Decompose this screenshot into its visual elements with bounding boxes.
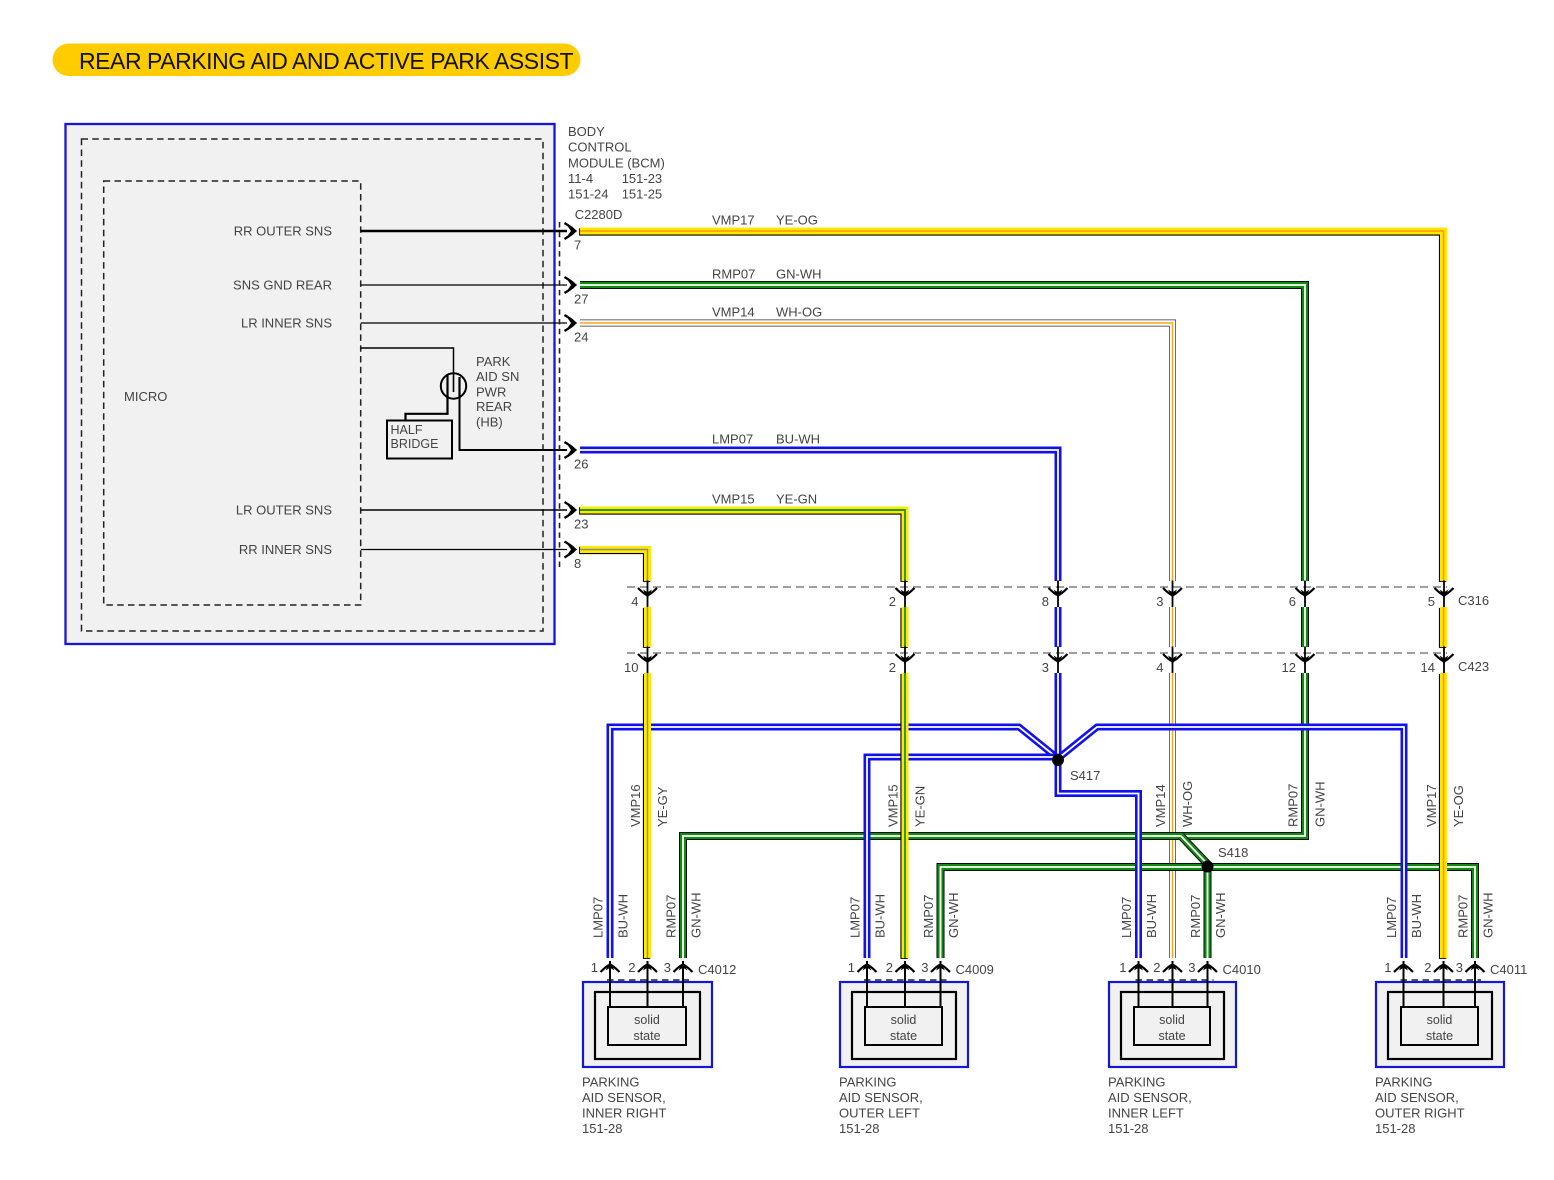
svg-text:151-23: 151-23 (622, 171, 662, 186)
svg-text:C4009: C4009 (956, 962, 994, 977)
svg-text:151-28: 151-28 (839, 1121, 879, 1136)
connector C316 pin 6 (1296, 581, 1315, 608)
svg-text:C4010: C4010 (1223, 962, 1261, 977)
parking aid sensor C4011 outer box (1376, 982, 1504, 1067)
splice S418 (1202, 861, 1214, 873)
svg-text:2: 2 (889, 594, 896, 609)
rotated wire label LMP07 BU-WH at C4012 (591, 894, 631, 938)
svg-text:SNS GND REAR: SNS GND REAR (233, 278, 332, 293)
connector C4011 dashed line (1401, 979, 1482, 981)
svg-text:MICRO: MICRO (124, 389, 167, 404)
svg-text:11-4: 11-4 (568, 171, 593, 186)
svg-text:7: 7 (574, 238, 581, 253)
svg-text:1: 1 (1384, 960, 1391, 975)
svg-text:LMP07: LMP07 (591, 897, 606, 938)
svg-text:AID SENSOR,: AID SENSOR, (582, 1090, 666, 1105)
wire lead RR INNER SNS (361, 549, 567, 551)
svg-text:12: 12 (1282, 660, 1296, 675)
connector C423 pin 12 (1296, 647, 1315, 674)
svg-text:AID SENSOR,: AID SENSOR, (839, 1090, 923, 1105)
svg-text:GN-WH: GN-WH (1481, 893, 1496, 939)
rotated wire label LMP07 BU-WH at C4011 (1384, 894, 1424, 938)
connector C4009 dashed line (864, 979, 947, 981)
svg-text:1: 1 (1119, 960, 1126, 975)
svg-text:state: state (1158, 1029, 1185, 1043)
connector C4011 pin 2 (1434, 961, 1453, 1008)
connector C423 dashed line (627, 652, 1447, 654)
svg-text:AID SENSOR,: AID SENSOR, (1108, 1090, 1192, 1105)
svg-text:solid: solid (634, 1013, 660, 1027)
svg-text:BU-WH: BU-WH (1409, 894, 1424, 938)
svg-text:RMP07: RMP07 (1286, 784, 1301, 827)
svg-text:151-28: 151-28 (1108, 1121, 1148, 1136)
svg-text:state: state (633, 1029, 660, 1043)
svg-text:AID SENSOR,: AID SENSOR, (1375, 1090, 1459, 1105)
svg-text:C4011: C4011 (1490, 962, 1527, 977)
svg-text:MODULE (BCM): MODULE (BCM) (568, 155, 665, 170)
wire RMP07 GN-WH between C316 and C423 (1301, 607, 1309, 647)
svg-text:OUTER LEFT: OUTER LEFT (839, 1106, 920, 1121)
wire VMP16 YE-GY between C316 and C423 (643, 607, 651, 648)
connector C316 pin 5 (1435, 581, 1454, 608)
svg-text:PARKING: PARKING (1375, 1075, 1433, 1090)
sensor C4011 caption (1375, 1075, 1465, 1137)
BCM connector pin 24 arrow (565, 315, 578, 331)
svg-text:151-24: 151-24 (568, 187, 608, 202)
svg-text:23: 23 (574, 517, 588, 532)
connector C4012 pin 1 (601, 961, 620, 1008)
svg-text:2: 2 (1424, 960, 1431, 975)
svg-text:151-28: 151-28 (582, 1121, 622, 1136)
splice S417 (1052, 754, 1064, 766)
wire LMP07 BU-WH between C316 and C423 (1055, 607, 1062, 647)
rotated wire label LMP07 BU-WH at C4009 (848, 894, 888, 938)
connector C4010 dashed line (1136, 979, 1214, 981)
wire LMP07 BU-WH C423 to splice S417 (1055, 673, 1062, 757)
svg-text:state: state (1426, 1029, 1453, 1043)
rotated wire label RMP07 GN-WH at C4012 (664, 893, 704, 939)
rotated wire label VMP17 YE-OG (1424, 784, 1466, 827)
svg-text:BU-WH: BU-WH (616, 894, 631, 938)
PARK AID SN PWR REAR (HB) driver symbol (circle) (441, 373, 466, 398)
svg-text:2: 2 (628, 960, 635, 975)
svg-text:CONTROL: CONTROL (568, 140, 632, 155)
wire lead to PARK AID SN PWR symbol (361, 348, 454, 374)
svg-text:YE-OG: YE-OG (1451, 785, 1466, 827)
BCM connector pin 7 arrow (565, 223, 578, 239)
parking aid sensor C4009 outer box (840, 982, 968, 1067)
wire label LMP07 BU-WH (712, 432, 820, 447)
rotated wire label RMP07 GN-WH at C4010 (1188, 893, 1228, 939)
svg-text:4: 4 (631, 594, 638, 609)
MICRO dashed box (104, 181, 361, 605)
sensor C4010 inner box (1121, 992, 1224, 1059)
wire RMP07 GN-WH to sensor C4012 pin 3 (683, 673, 1305, 958)
svg-text:VMP16: VMP16 (628, 784, 643, 827)
connector C423 pin 2 (896, 647, 915, 674)
connector C316 pin 3 (1163, 581, 1182, 608)
svg-text:VMP15: VMP15 (712, 492, 755, 507)
wire VMP15 YE-GN to sensor C4009 pin 2 (900, 673, 908, 959)
wire VMP16 YE-GY to sensor C4012 pin 2 (643, 673, 651, 959)
connector C423 pin 10 (638, 647, 657, 674)
svg-text:VMP14: VMP14 (712, 305, 755, 320)
rotated wire label RMP07 GN-WH at C4009 (921, 893, 961, 939)
wire lead RR OUTER SNS (361, 230, 567, 232)
svg-text:2: 2 (886, 960, 893, 975)
svg-text:state: state (890, 1029, 917, 1043)
svg-text:GN-WH: GN-WH (1313, 782, 1328, 828)
svg-text:INNER RIGHT: INNER RIGHT (582, 1106, 667, 1121)
wire RMP07 GN-WH sensor C4009 pin 3 to sensor C4011 pin 3 (941, 867, 1476, 958)
wire label VMP15 YE-GN (712, 492, 817, 507)
svg-text:RMP07: RMP07 (921, 895, 936, 938)
svg-text:HALF: HALF (391, 423, 423, 437)
wire lead LR OUTER SNS (361, 509, 567, 511)
BCM connector pin 27 arrow (565, 277, 578, 293)
svg-text:LR OUTER SNS: LR OUTER SNS (236, 503, 332, 518)
svg-text:YE-OG: YE-OG (776, 213, 818, 228)
sensor C4010 solid state block (1134, 1007, 1210, 1045)
connector C423 pin 3 (1049, 647, 1068, 674)
sensor C4012 caption (582, 1075, 667, 1137)
BCM outer dashed boundary (82, 139, 544, 631)
svg-text:PWR: PWR (476, 384, 506, 399)
sensor C4009 inner box (852, 992, 956, 1059)
sensor C4009 solid state block (865, 1007, 942, 1045)
rotated wire label VMP15 YE-GN (886, 784, 928, 827)
sensor C4009 caption (839, 1075, 923, 1137)
svg-text:RR INNER SNS: RR INNER SNS (239, 542, 333, 557)
svg-text:C316: C316 (1458, 593, 1489, 608)
rotated wire label RMP07 GN-WH (1286, 782, 1328, 828)
connector C4010 pin 1 (1129, 961, 1148, 1008)
svg-text:RMP07: RMP07 (712, 267, 755, 282)
svg-text:VMP17: VMP17 (1424, 784, 1439, 827)
svg-text:3: 3 (1188, 960, 1195, 975)
title banner REAR PARKING AID AND ACTIVE PARK ASSIST (53, 44, 581, 77)
BCM title text block (568, 124, 665, 202)
svg-text:1: 1 (591, 960, 598, 975)
BCM connector pin 23 arrow (565, 502, 578, 518)
svg-text:PARKING: PARKING (1108, 1075, 1166, 1090)
svg-text:3: 3 (1156, 594, 1163, 609)
svg-text:151-25: 151-25 (622, 187, 662, 202)
svg-text:solid: solid (891, 1013, 917, 1027)
wire lead SNS GND REAR (361, 284, 567, 286)
connector C316 pin 8 (1049, 581, 1068, 608)
svg-text:2: 2 (1153, 960, 1160, 975)
svg-text:AID SN: AID SN (476, 369, 519, 384)
wire VMP16 YE-GY from BCM pin 8 (579, 550, 647, 582)
wire VMP17 YE-OG between C316 and C423 (1439, 607, 1447, 648)
wire VMP17 YE-OG to sensor C4011 pin 2 (1439, 673, 1447, 959)
svg-text:YE-GN: YE-GN (913, 786, 928, 827)
svg-text:GN-WH: GN-WH (946, 893, 961, 939)
svg-text:YE-GY: YE-GY (655, 786, 670, 827)
sensor C4010 caption (1108, 1075, 1192, 1137)
svg-text:GN-WH: GN-WH (1213, 893, 1228, 939)
sensor C4012 solid state block (608, 1007, 686, 1045)
svg-text:C2280D: C2280D (575, 207, 623, 222)
wire RMP07 GN-WH splice S418 to sensor C4010 pin 3 (1204, 867, 1212, 959)
svg-text:LMP07: LMP07 (712, 432, 753, 447)
svg-text:3: 3 (1456, 960, 1463, 975)
sensor C4012 inner box (595, 992, 700, 1059)
wire circle to HALF BRIDGE (406, 396, 448, 420)
svg-text:2: 2 (889, 660, 896, 675)
wire label RMP07 GN-WH (712, 267, 822, 282)
wire lead LR INNER SNS (361, 322, 567, 324)
svg-text:8: 8 (574, 556, 581, 571)
svg-text:C423: C423 (1458, 659, 1489, 674)
svg-text:3: 3 (921, 960, 928, 975)
connector C2280D dashed line (559, 222, 561, 570)
rotated wire label RMP07 GN-WH at C4011 (1456, 893, 1496, 939)
svg-text:RMP07: RMP07 (1188, 895, 1203, 938)
svg-text:WH-OG: WH-OG (776, 305, 822, 320)
svg-text:RMP07: RMP07 (1456, 895, 1471, 938)
svg-text:INNER LEFT: INNER LEFT (1108, 1106, 1184, 1121)
svg-text:8: 8 (1042, 594, 1049, 609)
wire RMP07 branch to splice S418 (1181, 836, 1208, 864)
svg-text:YE-GN: YE-GN (776, 492, 817, 507)
svg-text:10: 10 (624, 660, 638, 675)
svg-text:VMP17: VMP17 (712, 213, 755, 228)
svg-text:27: 27 (574, 292, 588, 307)
connector C4010 pin 2 (1163, 961, 1182, 1008)
svg-text:1: 1 (848, 960, 855, 975)
svg-text:LMP07: LMP07 (1384, 897, 1399, 938)
connector C4011 pin 3 (1466, 961, 1485, 1008)
wire VMP15 YE-GN from BCM pin 23 (579, 510, 905, 582)
HALF BRIDGE block (387, 421, 452, 459)
svg-text:solid: solid (1427, 1013, 1453, 1027)
svg-text:(HB): (HB) (476, 414, 503, 429)
wire VMP14 WH-OG to sensor C4010 pin 2 (1169, 673, 1176, 958)
connector C4011 pin 1 (1394, 961, 1413, 1008)
connector C4012 pin 3 (674, 961, 693, 1008)
svg-text:14: 14 (1421, 660, 1435, 675)
connector C4010 pin 3 (1198, 961, 1217, 1008)
connector C316 pin 4 (638, 581, 657, 608)
svg-text:GN-WH: GN-WH (776, 267, 822, 282)
BCM connector pin 26 arrow (565, 442, 578, 458)
PARK AID SN PWR REAR (HB) label (476, 354, 519, 429)
svg-text:BRIDGE: BRIDGE (391, 437, 439, 451)
parking aid sensor C4010 outer box (1109, 982, 1236, 1067)
rotated wire label VMP14 WH-OG (1153, 781, 1195, 827)
svg-text:BU-WH: BU-WH (1144, 894, 1159, 938)
BCM module box (66, 124, 555, 644)
wire VMP14 WH-OG from BCM pin 24 (580, 323, 1173, 581)
svg-text:BODY: BODY (568, 124, 605, 139)
svg-text:REAR: REAR (476, 399, 512, 414)
svg-text:REAR PARKING AID AND ACTIVE PA: REAR PARKING AID AND ACTIVE PARK ASSIST (79, 48, 574, 74)
svg-text:OUTER RIGHT: OUTER RIGHT (1375, 1106, 1465, 1121)
wire label VMP14 WH-OG (712, 305, 822, 320)
svg-text:4: 4 (1156, 660, 1163, 675)
wire VMP17 YE-OG from BCM pin 7 (579, 231, 1443, 582)
svg-text:LMP07: LMP07 (1119, 897, 1134, 938)
wire LMP07 BU-WH sensor C4012 pin 1 to splice S417 (610, 727, 1058, 958)
svg-text:GN-WH: GN-WH (689, 893, 704, 939)
svg-text:VMP15: VMP15 (886, 784, 901, 827)
svg-text:6: 6 (1289, 594, 1296, 609)
svg-text:PARK: PARK (476, 354, 511, 369)
wire VMP14 WH-OG between C316 and C423 (1169, 607, 1176, 647)
connector C316 dashed line (627, 586, 1447, 588)
wire RMP07 GN-WH from BCM pin 27 (580, 285, 1305, 581)
svg-text:26: 26 (574, 457, 588, 472)
svg-text:5: 5 (1428, 594, 1435, 609)
connector C423 pin 4 (1163, 647, 1182, 674)
svg-text:24: 24 (574, 330, 588, 345)
svg-text:LMP07: LMP07 (848, 897, 863, 938)
svg-text:RR OUTER SNS: RR OUTER SNS (234, 224, 333, 239)
connector C4009 pin 1 (858, 961, 877, 1008)
svg-text:S418: S418 (1218, 845, 1248, 860)
wire VMP15 YE-GN between C316 and C423 (900, 607, 908, 648)
wire LMP07 BU-WH splice S417 to sensor C4011 pin 1 (1058, 727, 1404, 958)
svg-text:RMP07: RMP07 (664, 895, 679, 938)
wire label VMP17 YE-OG (712, 213, 818, 228)
svg-text:BU-WH: BU-WH (776, 432, 820, 447)
rotated wire label LMP07 BU-WH at C4010 (1119, 894, 1159, 938)
svg-text:3: 3 (664, 960, 671, 975)
connector C4012 pin 2 (638, 961, 657, 1008)
svg-text:3: 3 (1042, 660, 1049, 675)
svg-text:solid: solid (1159, 1013, 1185, 1027)
svg-text:C4012: C4012 (698, 962, 736, 977)
connector C4009 pin 2 (896, 961, 915, 1008)
wire LMP07 BU-WH sensor C4009 pin 1 to splice S417 (867, 757, 1055, 958)
wire LMP07 BU-WH from BCM pin 26 (580, 450, 1058, 581)
svg-text:LR INNER SNS: LR INNER SNS (241, 316, 332, 331)
connector C316 pin 2 (896, 581, 915, 608)
sensor C4011 inner box (1388, 992, 1492, 1059)
BCM connector pin 8 arrow (565, 542, 578, 558)
sensor C4011 solid state block (1401, 1007, 1478, 1045)
rotated wire label VMP16 YE-GY (628, 784, 670, 827)
connector C4009 pin 3 (931, 961, 950, 1008)
svg-text:VMP14: VMP14 (1153, 784, 1168, 827)
svg-text:S417: S417 (1070, 768, 1100, 783)
svg-text:PARKING: PARKING (582, 1075, 640, 1090)
svg-text:PARKING: PARKING (839, 1075, 897, 1090)
svg-text:WH-OG: WH-OG (1180, 781, 1195, 827)
wire circle to pin 26 (460, 395, 568, 450)
wire LMP07 BU-WH splice S417 to sensor C4010 pin 1 (1058, 760, 1139, 958)
connector C4012 dashed line (607, 979, 689, 981)
svg-text:151-28: 151-28 (1375, 1121, 1415, 1136)
parking aid sensor C4012 outer box (583, 982, 712, 1067)
connector C423 pin 14 (1435, 647, 1454, 674)
svg-text:BU-WH: BU-WH (873, 894, 888, 938)
